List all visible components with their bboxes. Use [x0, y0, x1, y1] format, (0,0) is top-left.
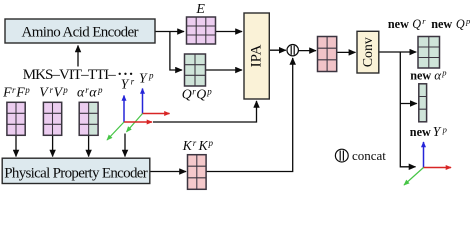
svg-text:r: r: [131, 77, 135, 87]
svg-text:p: p: [148, 71, 154, 81]
svg-text:IPA: IPA: [249, 44, 265, 67]
svg-text:Y: Y: [433, 124, 442, 139]
svg-text:MKS–VIT–TTI–: MKS–VIT–TTI–: [23, 67, 117, 83]
svg-text:K: K: [198, 138, 209, 153]
svg-text:p: p: [62, 85, 68, 95]
svg-text:Q: Q: [182, 87, 192, 102]
svg-text:E: E: [195, 2, 205, 17]
svg-text:new: new: [388, 17, 409, 31]
svg-text:V: V: [39, 85, 49, 100]
svg-text:p: p: [24, 85, 30, 95]
svg-text:p: p: [441, 68, 446, 78]
svg-text:α: α: [77, 85, 85, 100]
svg-text:new: new: [431, 17, 452, 31]
svg-text:Q: Q: [196, 87, 206, 102]
svg-text:Q: Q: [456, 17, 465, 31]
svg-text:Amino Acid Encoder: Amino Acid Encoder: [22, 25, 139, 41]
svg-text:F: F: [2, 85, 12, 100]
svg-text:p: p: [97, 85, 103, 95]
svg-text:p: p: [206, 87, 212, 97]
svg-text:K: K: [182, 138, 193, 153]
svg-text:α: α: [89, 85, 97, 100]
svg-text:α: α: [434, 67, 442, 82]
svg-text:r: r: [193, 138, 197, 148]
svg-text:V: V: [54, 85, 64, 100]
svg-text:concat: concat: [352, 148, 386, 163]
svg-text:Physical Property Encoder: Physical Property Encoder: [4, 165, 148, 181]
svg-text:new: new: [410, 125, 431, 139]
svg-text:Y: Y: [139, 70, 148, 85]
svg-text:r: r: [422, 16, 426, 26]
svg-text:Conv: Conv: [360, 37, 375, 67]
svg-text:new: new: [410, 68, 431, 82]
svg-text:p: p: [208, 138, 214, 148]
svg-text:p: p: [465, 16, 470, 26]
svg-text:Q: Q: [412, 17, 421, 31]
svg-text:p: p: [442, 124, 447, 134]
svg-text:F: F: [15, 85, 25, 100]
